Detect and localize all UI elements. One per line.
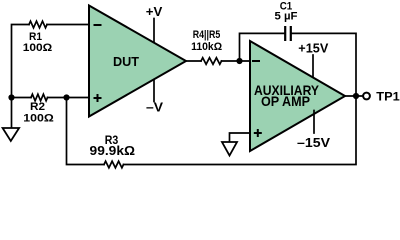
svg-text:DUT: DUT: [113, 54, 139, 69]
svg-text:99.9kΩ: 99.9kΩ: [90, 144, 136, 158]
svg-text:TP1: TP1: [376, 90, 400, 104]
svg-text:–15V: –15V: [297, 136, 331, 150]
svg-text:+15V: +15V: [298, 42, 329, 56]
svg-text:OP AMP: OP AMP: [261, 93, 310, 109]
svg-text:5 µF: 5 µF: [275, 10, 298, 22]
svg-text:100Ω: 100Ω: [23, 113, 54, 125]
svg-text:R2: R2: [30, 101, 45, 113]
svg-text:110kΩ: 110kΩ: [191, 41, 222, 53]
svg-text:100Ω: 100Ω: [23, 42, 53, 54]
svg-text:R4||R5: R4||R5: [193, 29, 221, 41]
svg-text:+V: +V: [146, 5, 163, 19]
svg-text:–V: –V: [146, 100, 164, 114]
